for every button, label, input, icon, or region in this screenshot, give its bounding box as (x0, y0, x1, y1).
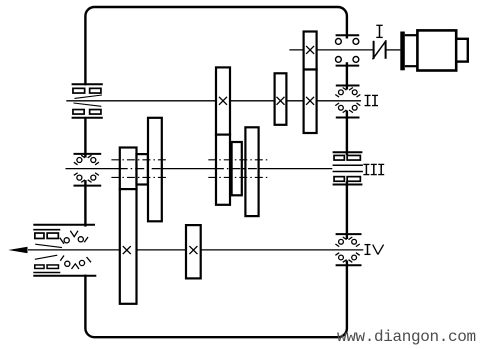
svg-text:www.diangon.com: www.diangon.com (337, 328, 476, 346)
